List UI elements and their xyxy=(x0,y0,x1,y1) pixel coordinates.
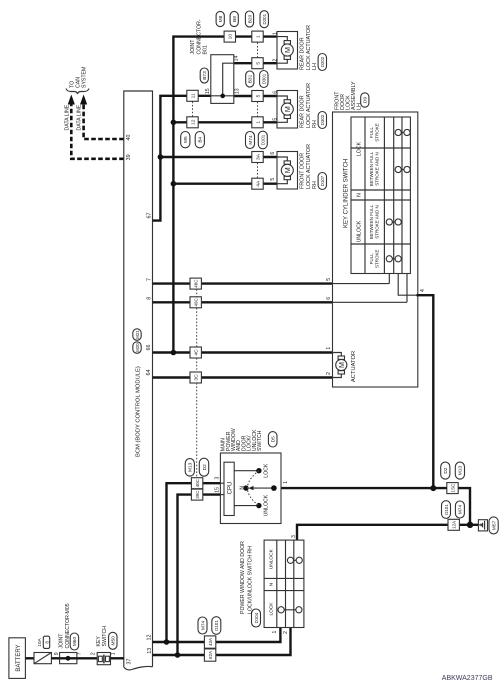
connector D5 xyxy=(268,432,277,447)
node ground join 1 xyxy=(430,485,436,491)
wire fuse to joint connector xyxy=(51,657,59,659)
wire / data line to CAN (pin 39, dashed) xyxy=(71,104,124,159)
connector box 5 (rear LH) xyxy=(252,58,263,69)
wire joint connector B01 pin13 to rear RH pin6 xyxy=(234,95,277,97)
svg-text:2: 2 xyxy=(283,631,289,634)
connector box 1SC xyxy=(447,483,458,494)
contact unlock between xyxy=(389,221,398,223)
svg-text:D101: D101 xyxy=(214,620,219,631)
connector D201 xyxy=(260,11,268,28)
svg-text:7: 7 xyxy=(146,278,152,281)
connector box 10 xyxy=(224,31,235,42)
svg-text:RH: RH xyxy=(312,181,318,189)
wires inside actuator LH xyxy=(277,37,287,64)
motor M (rear LH) xyxy=(284,41,290,44)
wires inside actuator RH xyxy=(277,96,287,122)
connector D107 xyxy=(318,173,326,190)
wire battery to fuse xyxy=(25,657,34,659)
connector M21 xyxy=(133,329,141,341)
wire riser BCM13 to switch pin15 xyxy=(178,495,221,655)
connector M50 xyxy=(109,632,117,649)
svg-text:FRONT DOOR: FRONT DOOR xyxy=(300,153,306,189)
svg-text:N: N xyxy=(269,582,275,586)
svg-text:DATA LINE: DATA LINE xyxy=(77,104,83,130)
wire riser BCM12 to switch pin3 xyxy=(167,483,221,642)
connector box 3C xyxy=(190,372,201,383)
svg-text:49C: 49C xyxy=(194,297,199,306)
svg-text:M: M xyxy=(283,167,292,173)
wire inside B01 xyxy=(211,63,234,96)
svg-text:43A: 43A xyxy=(208,638,213,646)
contact lock full stroke xyxy=(398,132,407,134)
wire key cyl pin4 down xyxy=(417,295,434,488)
svg-text:1: 1 xyxy=(255,121,261,124)
connector M8 xyxy=(216,11,224,26)
connector M20 xyxy=(133,342,141,354)
motor M (front RH) xyxy=(284,161,290,164)
fuse number 8 xyxy=(43,636,49,648)
svg-text:B8: B8 xyxy=(232,16,238,22)
connector D301 xyxy=(260,71,268,88)
svg-text:BETWEEN FULL: BETWEEN FULL xyxy=(369,151,374,186)
node joint connector M05 xyxy=(66,656,71,661)
connector D302 xyxy=(318,112,326,129)
svg-text:D202: D202 xyxy=(320,56,325,67)
connector D2 xyxy=(199,458,208,476)
svg-text:4A: 4A xyxy=(255,180,261,187)
svg-text:STROKE: STROKE xyxy=(374,250,379,269)
svg-text:12: 12 xyxy=(190,119,196,125)
node 67/front-RH xyxy=(158,154,164,160)
switch wiper arc xyxy=(247,471,258,506)
svg-text:37: 37 xyxy=(127,659,133,665)
connector D104 xyxy=(252,609,261,627)
svg-text:LOCK ACTUATOR: LOCK ACTUATOR xyxy=(306,83,312,128)
node B01 junction xyxy=(220,94,225,99)
svg-text:6: 6 xyxy=(326,297,332,300)
node bus/66 xyxy=(171,350,177,356)
svg-text:M13: M13 xyxy=(188,462,194,472)
node ground join 2 xyxy=(467,522,473,528)
connector D101 xyxy=(442,501,451,519)
connector box 3A xyxy=(252,152,263,163)
svg-text:M20: M20 xyxy=(135,343,140,352)
node 13 riser xyxy=(175,652,181,658)
svg-text:M13: M13 xyxy=(458,466,464,476)
connector box 12A xyxy=(448,519,459,530)
svg-text:SYSTEM: SYSTEM xyxy=(82,67,88,88)
svg-text:UNLOCK: UNLOCK xyxy=(269,548,275,569)
svg-text:1: 1 xyxy=(272,630,278,633)
svg-text:3A: 3A xyxy=(255,153,261,160)
svg-text:SWITCH: SWITCH xyxy=(102,626,108,647)
arrow to CAN system (right) xyxy=(80,95,87,105)
svg-text:D2: D2 xyxy=(443,467,449,473)
svg-text:M74: M74 xyxy=(248,135,254,145)
power window sub switch RH table xyxy=(264,540,304,627)
contact N xyxy=(243,485,248,490)
connector D101 xyxy=(258,131,267,149)
battery box xyxy=(9,638,26,679)
svg-text:LH: LH xyxy=(312,63,318,70)
wire BCM pin64 to assembly actuator pin2 xyxy=(153,376,333,378)
svg-text:LOCK: LOCK xyxy=(269,602,275,616)
svg-text:FULL: FULL xyxy=(369,253,374,265)
svg-text:REAR DOOR: REAR DOOR xyxy=(300,37,306,70)
svg-text:3: 3 xyxy=(215,477,221,480)
connector M60 xyxy=(70,633,78,650)
svg-text:1: 1 xyxy=(110,652,116,655)
svg-text:67: 67 xyxy=(146,213,152,219)
svg-text:STROKE: STROKE xyxy=(374,123,379,142)
contact lock (sub) xyxy=(281,609,299,611)
wire BCM pin13 to sub switch pin2 xyxy=(153,628,291,656)
joint connector-M05 box xyxy=(60,653,77,664)
node switch common xyxy=(271,485,277,491)
svg-text:7: 7 xyxy=(77,652,83,655)
svg-text:D302: D302 xyxy=(320,114,325,125)
connector box 5 (rear RH) xyxy=(252,91,263,102)
svg-text:FULL: FULL xyxy=(369,127,374,139)
svg-text:LOCK ACTUATOR: LOCK ACTUATOR xyxy=(306,144,312,189)
svg-text:4C: 4C xyxy=(194,349,200,356)
svg-text:D107: D107 xyxy=(320,175,325,186)
svg-text:2: 2 xyxy=(90,652,96,655)
svg-text:D101: D101 xyxy=(261,134,266,145)
svg-text:CPU: CPU xyxy=(227,482,233,495)
svg-text:62A: 62A xyxy=(208,651,213,659)
contact UNLOCK xyxy=(256,503,261,508)
front door lock actuator RH box xyxy=(277,152,298,190)
svg-text:M21: M21 xyxy=(135,330,140,339)
svg-text:D5: D5 xyxy=(271,436,277,442)
contact lock between xyxy=(398,169,407,171)
svg-text:JOINT: JOINT xyxy=(190,39,196,55)
arrow to CAN system (left) xyxy=(68,95,75,105)
svg-text:STROKE AND N: STROKE AND N xyxy=(374,152,379,186)
svg-text:LOCK: LOCK xyxy=(356,141,362,156)
svg-text:D9: D9 xyxy=(363,97,369,103)
svg-text:D301: D301 xyxy=(262,73,267,84)
connector B8 xyxy=(230,11,238,26)
contact LOCK xyxy=(256,468,261,473)
rear door lock actuator RH box xyxy=(277,91,298,129)
dashed link 1-5 xyxy=(257,43,259,58)
connector box 62A xyxy=(204,649,215,661)
svg-text:1: 1 xyxy=(255,35,261,38)
connector M5 xyxy=(181,132,190,148)
connector box 4A xyxy=(252,178,263,189)
svg-text:LOCK: LOCK xyxy=(264,463,270,478)
connector box 4C xyxy=(190,347,201,358)
svg-text:8: 8 xyxy=(44,641,49,644)
connector D101 xyxy=(212,617,221,635)
svg-text:12: 12 xyxy=(146,635,152,641)
svg-text:UNLOCK: UNLOCK xyxy=(356,220,362,242)
svg-text:10A: 10A xyxy=(37,637,43,646)
wire switch pin3 stub xyxy=(220,482,224,484)
svg-text:RH: RH xyxy=(312,120,318,128)
wire BCM pin8 to key cylinder pin6 xyxy=(153,301,333,303)
connector D2 xyxy=(441,462,450,479)
svg-text:UNLOCK: UNLOCK xyxy=(264,494,270,516)
connector box 49C xyxy=(190,297,201,308)
wire key cyl terminal to pin5 xyxy=(388,274,390,284)
wire key cyl terminal to pin4 xyxy=(398,274,416,296)
svg-text:M5: M5 xyxy=(183,136,189,143)
svg-text:B4: B4 xyxy=(198,136,204,142)
svg-text:ACTUATOR: ACTUATOR xyxy=(351,351,357,382)
svg-text:48C: 48C xyxy=(194,279,199,288)
wire joint connector B01 pin14 to rear LH pin2 xyxy=(234,62,277,64)
connector M13 xyxy=(185,459,194,477)
wire BCM pin7 to key cylinder pin5 xyxy=(153,282,333,284)
svg-text:15: 15 xyxy=(205,88,211,94)
svg-text:POWER WINDOW AND DOOR: POWER WINDOW AND DOOR xyxy=(240,541,246,614)
connector box 39C xyxy=(191,489,202,500)
svg-text:1: 1 xyxy=(283,481,289,484)
wire unlock bus riser xyxy=(173,37,277,353)
connector box 1 (rear RH) xyxy=(252,117,263,128)
wire / data line to CAN (pin 40, dashed) xyxy=(84,104,124,139)
svg-text:15: 15 xyxy=(215,487,221,493)
svg-text:39C: 39C xyxy=(195,490,200,499)
svg-text:M: M xyxy=(283,47,292,53)
connector box 1 (rear LH) xyxy=(252,31,263,42)
svg-text:13: 13 xyxy=(235,88,241,94)
key switch box xyxy=(97,653,110,665)
svg-text:13: 13 xyxy=(147,648,153,654)
dashed link 3A-4A xyxy=(257,163,259,178)
fuse 10A xyxy=(34,653,51,664)
node bus/rear-RH xyxy=(171,120,177,126)
svg-text:M74: M74 xyxy=(458,505,464,515)
svg-text:LOCK ACTUATOR: LOCK ACTUATOR xyxy=(306,25,312,70)
connector box 48C xyxy=(190,278,201,289)
svg-text:SWITCH: SWITCH xyxy=(257,430,263,451)
svg-text:M: M xyxy=(283,106,292,112)
wire CPU to LOCK contact xyxy=(234,470,259,472)
svg-text:5: 5 xyxy=(272,118,278,121)
rear door lock actuator LH box xyxy=(277,32,298,70)
svg-text:B20: B20 xyxy=(247,14,253,23)
svg-text:LOCK/UNLOCK SWITCH RH: LOCK/UNLOCK SWITCH RH xyxy=(247,546,253,614)
svg-text:D201: D201 xyxy=(262,13,267,24)
svg-text:KEY: KEY xyxy=(96,636,102,647)
wire key cyl terminal to pin6 xyxy=(333,274,408,303)
svg-text:M57: M57 xyxy=(491,520,497,530)
svg-text:3C: 3C xyxy=(194,374,200,381)
svg-text:D104: D104 xyxy=(254,612,259,623)
svg-text:12A: 12A xyxy=(452,521,457,529)
key cylinder switch table xyxy=(351,117,410,274)
svg-text:10: 10 xyxy=(228,34,234,40)
wire key cyl inner pin5 xyxy=(333,283,390,285)
svg-text:5: 5 xyxy=(255,94,261,97)
svg-text:5: 5 xyxy=(255,62,261,65)
dashed link 5-1 xyxy=(257,102,259,117)
svg-text:39: 39 xyxy=(126,154,132,160)
wires inside front actuator RH xyxy=(277,157,287,184)
connector B20 xyxy=(245,11,253,27)
svg-text:KEY CYLINDER SWITCH: KEY CYLINDER SWITCH xyxy=(344,159,350,228)
wire to front door RH actuator pin5 xyxy=(173,182,277,184)
connector B4 xyxy=(195,132,204,148)
wire CPU to UNLOCK contact xyxy=(234,505,259,507)
svg-text:4: 4 xyxy=(420,289,426,292)
wire pin1 wiper xyxy=(250,487,274,489)
svg-text:1SC: 1SC xyxy=(450,483,455,493)
connector D202 xyxy=(318,54,326,71)
contact unlock (sub) xyxy=(291,559,300,561)
svg-text:1: 1 xyxy=(326,347,332,350)
wire switch pin15 stub xyxy=(220,494,224,496)
svg-text:D2: D2 xyxy=(202,464,208,470)
svg-text:1: 1 xyxy=(272,32,278,35)
svg-text:6: 6 xyxy=(272,91,278,94)
dotted connector line xyxy=(196,289,198,477)
connector M74 xyxy=(198,617,207,634)
motor M (rear RH) xyxy=(284,100,290,103)
main power window switch box xyxy=(220,453,281,524)
svg-text:3: 3 xyxy=(291,535,297,538)
svg-text:14: 14 xyxy=(233,56,239,62)
connector M13 xyxy=(455,462,464,479)
node 12 riser xyxy=(164,639,170,645)
connector M74 xyxy=(455,501,464,518)
node bus/front-RH xyxy=(171,181,177,187)
wire sub switch pin3 to ground xyxy=(297,525,478,540)
svg-text:M: M xyxy=(337,362,346,368)
connector M74 xyxy=(246,132,255,149)
svg-text:M50: M50 xyxy=(111,636,117,646)
CPU box xyxy=(224,462,234,515)
BCM (Body Control Module) box xyxy=(124,91,153,667)
contact unlock full stroke xyxy=(389,258,398,260)
svg-text:B01: B01 xyxy=(203,45,209,54)
svg-text:BCM (BODY CONTROL MODULE): BCM (BODY CONTROL MODULE) xyxy=(136,366,142,457)
wire BCM pin66 to assembly actuator pin1 xyxy=(153,351,333,353)
svg-text:B73: B73 xyxy=(202,71,208,80)
svg-text:M74: M74 xyxy=(200,621,206,631)
svg-text:8: 8 xyxy=(146,297,152,300)
wire joint connector to key switch xyxy=(77,657,97,659)
svg-text:BETWEEN FULL: BETWEEN FULL xyxy=(369,204,374,239)
wires to assembly actuator xyxy=(333,353,342,378)
svg-text:M8: M8 xyxy=(218,15,224,22)
svg-text:N: N xyxy=(356,193,362,197)
motor M (assembly actuator) xyxy=(338,356,344,359)
connector D9 xyxy=(361,93,369,107)
svg-text:BATTERY: BATTERY xyxy=(16,644,22,671)
svg-text:JOINT: JOINT xyxy=(59,633,65,649)
connector box 11 xyxy=(187,90,198,101)
connector B73 xyxy=(200,68,208,83)
wire key switch to BCM pin37 xyxy=(111,657,124,659)
wire BCM pin67 riser xyxy=(153,96,211,221)
wire main switch pin1 to 1SC and down xyxy=(281,488,470,525)
ground symbol xyxy=(478,520,487,531)
svg-text:DATA LINE: DATA LINE xyxy=(64,104,70,130)
connector B31 xyxy=(246,71,254,87)
svg-text:2: 2 xyxy=(272,59,278,62)
wire to rear door RH actuator pin5 xyxy=(173,121,277,123)
svg-text:40C: 40C xyxy=(195,478,200,487)
svg-text:5: 5 xyxy=(270,178,276,181)
svg-text:5: 5 xyxy=(326,278,332,281)
svg-text:B31: B31 xyxy=(248,74,254,83)
svg-text:40: 40 xyxy=(126,135,132,141)
svg-text:D101: D101 xyxy=(444,504,449,515)
brace for TO CAN SYSTEM xyxy=(66,89,89,95)
svg-text:REAR DOOR: REAR DOOR xyxy=(300,95,306,128)
ground M57 xyxy=(489,517,498,534)
svg-text:CONNECTOR-: CONNECTOR- xyxy=(196,19,202,54)
svg-text:2: 2 xyxy=(326,372,332,375)
dashed link 11-12 xyxy=(192,102,194,117)
svg-text:9: 9 xyxy=(54,652,60,655)
svg-text:64: 64 xyxy=(146,370,152,376)
front door lock assembly LH box xyxy=(333,112,418,387)
connector box 12 xyxy=(187,117,198,128)
svg-text:N: N xyxy=(240,486,246,490)
svg-text:STROKE AND N: STROKE AND N xyxy=(374,205,379,239)
connector box 43A xyxy=(204,636,215,648)
svg-text:M60: M60 xyxy=(72,637,78,647)
svg-text:ABKWA2377GB: ABKWA2377GB xyxy=(442,675,493,682)
svg-text:6: 6 xyxy=(270,152,276,155)
wire to front door RH actuator pin6 xyxy=(160,156,277,158)
svg-text:66: 66 xyxy=(146,345,152,351)
connector box 40C xyxy=(191,478,202,489)
svg-text:11: 11 xyxy=(190,93,196,98)
joint connector B01 box xyxy=(211,55,234,104)
wire BCM pin12 to sub switch pin1 xyxy=(153,628,281,643)
